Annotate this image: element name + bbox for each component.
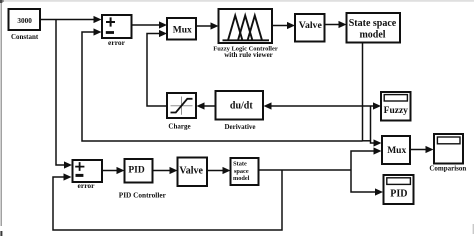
- svg-text:Comparison: Comparison: [429, 164, 466, 172]
- svg-text:Mux: Mux: [173, 25, 192, 35]
- wire node tap to fuzzy scope (rightward): [363, 102, 382, 109]
- mux U1 (fuzzy loop): [167, 18, 196, 40]
- wire mux1 to fuzzy controller: [196, 22, 219, 29]
- wire node tap down to mux2 input 1: [363, 106, 382, 147]
- wire junction down to PID scope: [351, 170, 383, 196]
- svg-text:PID: PID: [128, 166, 145, 176]
- svg-text:State: State: [233, 160, 247, 167]
- wire feedback to sum1 minus input: [82, 28, 363, 141]
- svg-text:State space: State space: [349, 18, 397, 29]
- svg-text:error: error: [78, 181, 96, 190]
- scope Comparison: [434, 134, 463, 164]
- wire derivative to charge: [197, 102, 216, 109]
- sum S2 error (PID loop): [73, 160, 103, 182]
- wire node tap to derivative (leftward): [264, 102, 363, 109]
- fuzzy logic controller block: [219, 9, 273, 43]
- wire constant branch down to sum2 plus input: [56, 20, 72, 169]
- page border left: [1, 0, 2, 226]
- state space model block SS1 (fuzzy loop): [347, 13, 401, 43]
- wire feedback to sum2 minus input: [53, 170, 282, 230]
- wire state space 1 output down: [362, 43, 364, 142]
- scope Fuzzy: [381, 92, 411, 121]
- page border top: [0, 0, 474, 2]
- wire constant to sum1: [40, 16, 102, 23]
- svg-text:3000: 3000: [17, 17, 32, 25]
- svg-text:error: error: [108, 38, 126, 47]
- constant C1 "3000": [9, 9, 41, 30]
- wire sum2 to PID controller: [102, 167, 125, 174]
- svg-text:PID Controller: PID Controller: [119, 190, 167, 199]
- svg-text:space: space: [234, 168, 249, 175]
- wire mux2 to comparison scope: [410, 146, 434, 153]
- svg-text:Mux: Mux: [387, 146, 406, 156]
- svg-text:PID: PID: [390, 188, 407, 199]
- svg-text:Derivative: Derivative: [224, 123, 255, 131]
- wire sum1 to mux1: [132, 21, 168, 28]
- svg-text:model: model: [359, 30, 385, 41]
- valve block V2 (PID loop): [178, 158, 208, 187]
- svg-text:model: model: [233, 175, 250, 182]
- saturation block Charge: [167, 93, 196, 118]
- sum S1 error (fuzzy loop): [102, 15, 132, 38]
- svg-text:Charge: Charge: [168, 123, 190, 131]
- wire PID to valve2: [153, 167, 178, 174]
- svg-text:Constant: Constant: [11, 33, 39, 41]
- state space model block SS2 (PID loop): [231, 158, 259, 185]
- wire junction up to mux2 input 2: [351, 147, 382, 170]
- wire state space 2 output to junction: [259, 169, 352, 171]
- wire valve2 to state space model 2: [207, 167, 231, 174]
- mux U2 (comparison): [382, 136, 410, 164]
- PID controller block: [125, 159, 153, 183]
- derivative block du/dt: [216, 91, 264, 120]
- svg-text:Valve: Valve: [299, 20, 323, 31]
- valve block V1 (fuzzy loop): [295, 14, 325, 42]
- svg-text:with rule viewer: with rule viewer: [224, 51, 273, 59]
- scope PID: [384, 175, 414, 204]
- wire valve1 to state space model 1: [325, 21, 347, 28]
- svg-text:Fuzzy: Fuzzy: [384, 106, 409, 116]
- svg-text:Valve: Valve: [179, 165, 203, 176]
- svg-text:du/dt: du/dt: [230, 100, 253, 111]
- wire charge to mux1 input 2: [147, 30, 167, 106]
- wire fuzzy controller to valve1: [272, 22, 295, 29]
